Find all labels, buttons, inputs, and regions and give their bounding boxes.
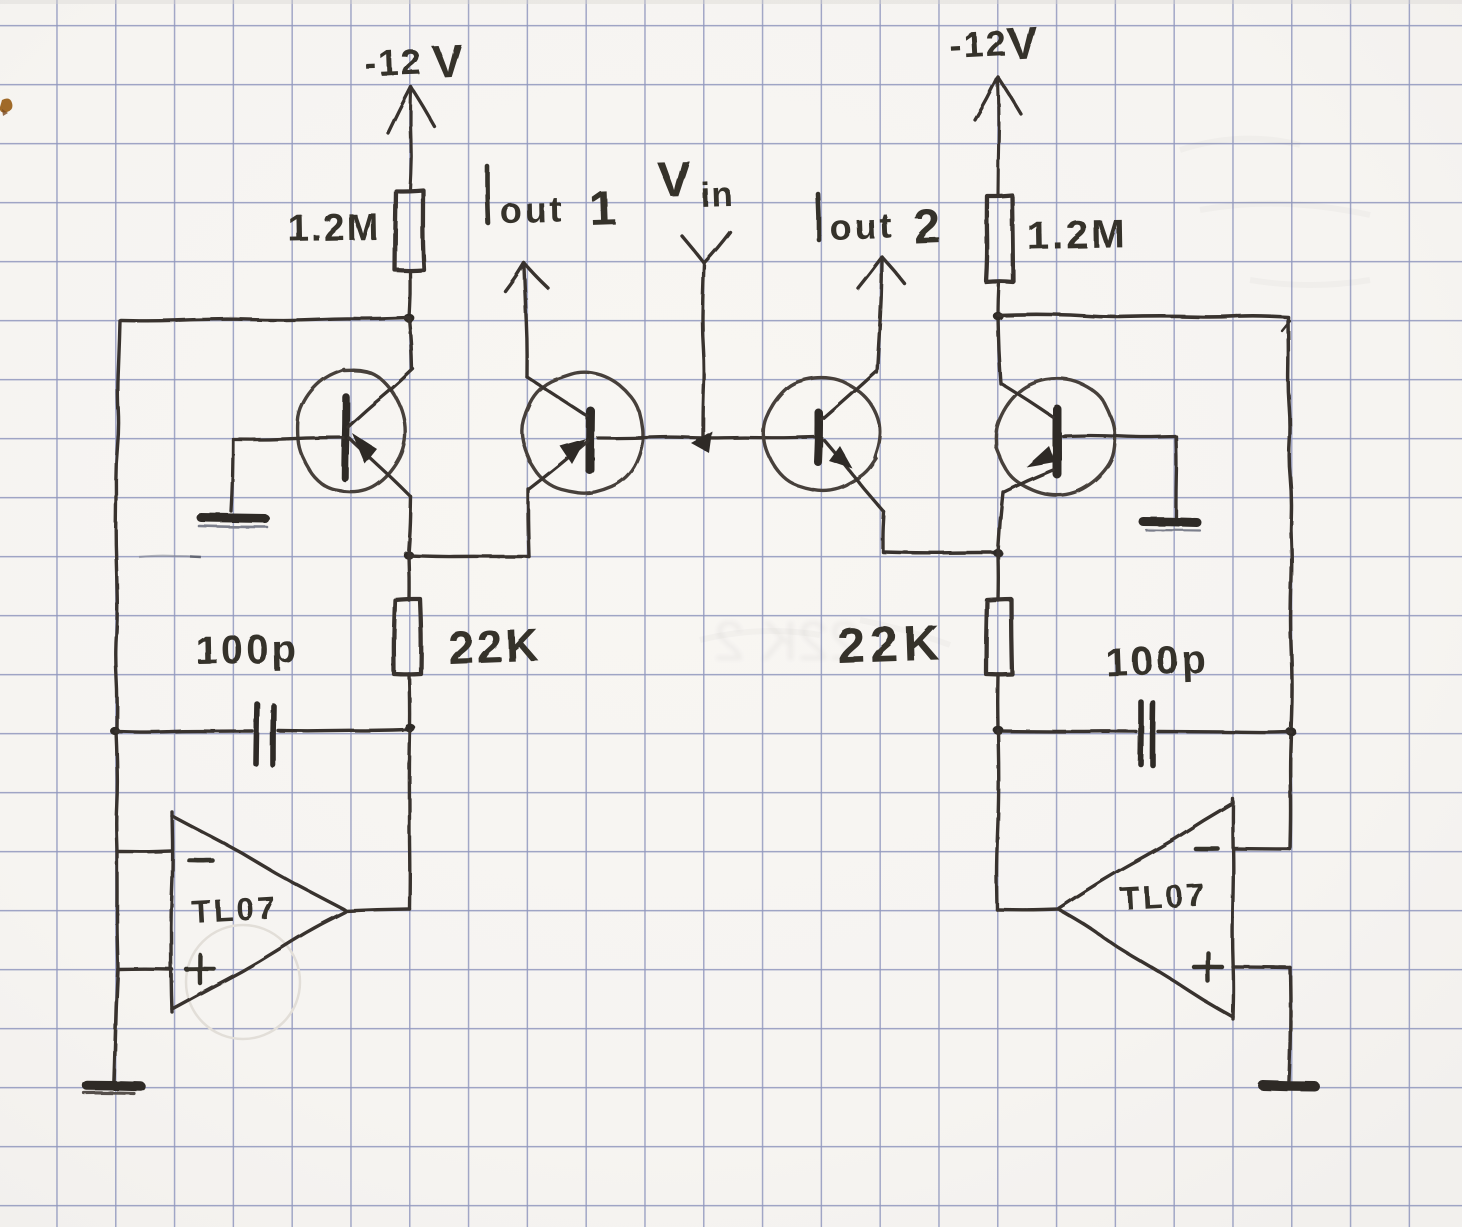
svg-text:1.2M: 1.2M: [287, 206, 380, 250]
resistor R2 1.2M (right): [986, 195, 1013, 282]
wire node E to R4: [996, 555, 1000, 600]
transistor Q4 collector: [1002, 384, 1053, 417]
wire U1 non-inverting stub: [118, 967, 172, 971]
current arrow Iout2: [877, 261, 882, 372]
ground G1 (Q1 base): [201, 518, 265, 519]
svg-text:out: out: [499, 189, 565, 231]
node B (cap junction left): [110, 727, 120, 735]
svg-text:-12: -12: [364, 41, 423, 84]
svg-text:22K: 22K: [448, 619, 543, 674]
current arrow Iout1: [524, 267, 527, 377]
svg-text:1: 1: [589, 182, 618, 236]
resistor R1 1.2M (left): [395, 190, 424, 271]
wire left vertical (feedback rail): [116, 321, 120, 731]
capacitor C2 100p plates: [1138, 702, 1144, 764]
label Iout 1: [487, 166, 488, 223]
transistor Q4 emitter arrow: [1026, 446, 1055, 467]
transistor Q3 collector: [822, 371, 876, 419]
op-amp U1 triangle: [171, 812, 173, 1012]
ground G2 (Q4 base): [1143, 522, 1197, 523]
op-amp U1 minus sign: [189, 858, 212, 863]
power arrow -12V (right): [996, 80, 1000, 195]
wire right vertical (feedback rail): [1288, 318, 1292, 731]
transistor Q2 base bar: [586, 411, 596, 470]
ground G3 (bottom left): [87, 1086, 141, 1087]
wire Q1 base to ground: [231, 440, 233, 511]
label Iout 2: [818, 194, 819, 240]
op-amp U1 plus sign: [186, 967, 214, 972]
capacitor C1 100p plates: [256, 704, 257, 764]
wire node A to Q1 collector: [409, 318, 412, 369]
wire output U1: [345, 909, 410, 911]
transistor Q4 base bar: [1052, 409, 1061, 474]
svg-text:TL07: TL07: [1119, 877, 1207, 917]
node A (left rail top): [404, 314, 415, 323]
svg-text:V: V: [431, 34, 465, 88]
power arrow -12V (left): [410, 90, 411, 190]
transistor Q1 base bar: [345, 397, 346, 478]
node G (cap junction right): [1286, 727, 1296, 736]
svg-text:22K: 22K: [836, 614, 945, 674]
wire U2 inverting stub: [1233, 847, 1290, 851]
resistor R3 22K (left): [394, 599, 421, 674]
svg-text:V: V: [656, 151, 692, 208]
transistor Q4 emitter: [1004, 470, 1053, 492]
svg-text:2: 2: [913, 200, 942, 254]
arrowhead on base bus at Vin: [691, 431, 712, 453]
svg-text:in: in: [700, 175, 734, 215]
wire top-right horizontal: [998, 314, 1288, 317]
wire U2 plus to ground: [1289, 968, 1290, 1082]
svg-text:V: V: [1005, 16, 1040, 70]
wire U2 non-inverting stub: [1233, 965, 1290, 969]
wire Q3 emitter to node E: [883, 550, 997, 554]
wire feedback vertical right: [997, 731, 999, 910]
wire base bus Q2-Vin-Q3: [598, 437, 814, 438]
transistor Q3 emitter: [824, 440, 884, 512]
wire Q1 emitter to node C: [409, 497, 412, 555]
svg-text:100p: 100p: [1105, 637, 1210, 685]
transistor Q2 emitter: [529, 441, 588, 489]
wire node C to R3: [407, 555, 411, 600]
transistor Q1 circle: [298, 369, 406, 491]
paper speck: [0, 99, 12, 113]
svg-text:1.2M: 1.2M: [1026, 212, 1128, 258]
transistor Q3 emitter arrow: [829, 446, 853, 469]
resistor R4 22K (right): [986, 599, 1012, 674]
transistor Q1 base wire: [233, 438, 343, 440]
wire R2 to node F: [998, 282, 999, 316]
transistor Q4 base wire: [1063, 436, 1176, 437]
wire top-left horizontal: [121, 318, 409, 321]
transistor Q1 emitter: [349, 438, 411, 497]
op-amp U2 triangle: [1231, 799, 1235, 1019]
wire feedback vertical left: [408, 731, 412, 909]
op-amp U2 plus sign: [1194, 965, 1222, 970]
transistor Q1 emitter arrow: [352, 433, 377, 464]
faint bleed-through ghosts (decorative): [700, 139, 1370, 645]
transistor Q4 circle: [996, 379, 1115, 496]
wire node F to Q4 collector: [998, 316, 1001, 384]
node D (cap junction mid-left): [405, 724, 416, 733]
svg-text:TL07: TL07: [190, 890, 278, 930]
wire capacitor row left: [116, 731, 252, 732]
wire node C to Q2 emitter: [409, 556, 530, 557]
wire R1 to node A: [409, 270, 410, 318]
node H (cap junction mid-right): [993, 726, 1004, 735]
node F (right rail top): [993, 312, 1003, 321]
transistor Q3 circle: [763, 378, 880, 491]
node C (22K top left): [403, 551, 413, 560]
wire U1 inverting stub: [117, 849, 172, 853]
erased circle under U1 (decorative): [186, 925, 300, 1039]
wire Q4 emitter to node E: [998, 492, 1003, 553]
svg-text:100p: 100p: [195, 627, 299, 673]
terminal Vin antenna: [682, 236, 704, 263]
svg-text:-12: -12: [948, 22, 1008, 66]
node E (22K top right): [993, 549, 1003, 557]
transistor Q3 base bar: [818, 413, 819, 462]
op-amp U2 minus sign: [1196, 847, 1218, 852]
wire output U2: [997, 907, 1059, 911]
svg-text:out: out: [829, 205, 895, 248]
transistor Q2 emitter arrow: [560, 439, 586, 465]
wire Q4 base to ground: [1174, 437, 1178, 518]
wire capacitor row right: [998, 729, 1136, 733]
ground G4 (bottom right): [1263, 1086, 1315, 1087]
transistor Q2 collector: [527, 377, 587, 416]
wire R4 to node H: [996, 674, 1000, 729]
wire R3 to node D: [407, 674, 411, 727]
transistor Q1 collector: [348, 369, 413, 427]
transistor Q2 circle: [522, 372, 643, 493]
